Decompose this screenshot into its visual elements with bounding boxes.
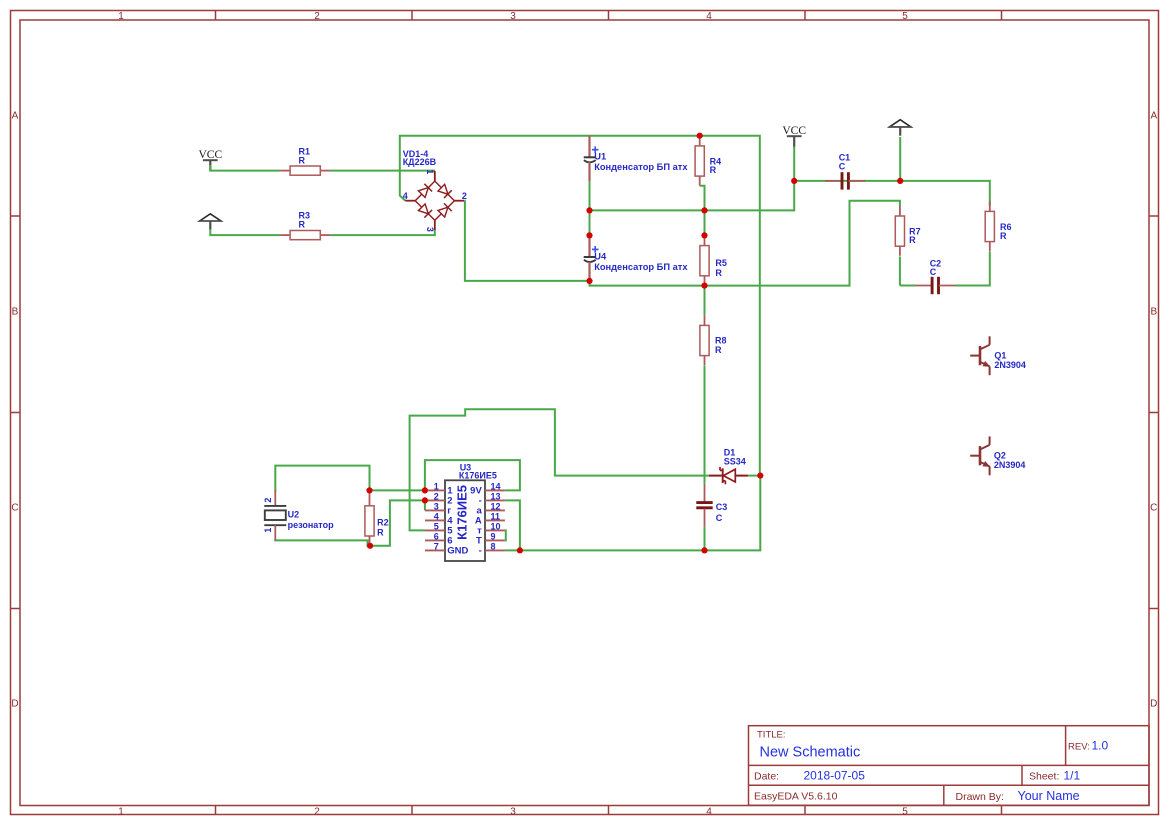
svg-text:Конденсатор БП атх: Конденсатор БП атх xyxy=(594,262,688,272)
svg-text:КД226В: КД226В xyxy=(403,157,437,167)
svg-text:4: 4 xyxy=(706,807,712,818)
capacitor C1 xyxy=(825,172,865,189)
svg-text:7: 7 xyxy=(434,542,439,552)
svg-text:B: B xyxy=(1150,307,1157,318)
svg-text:1: 1 xyxy=(118,11,124,22)
junction U1 minus node xyxy=(586,207,592,213)
wire gnd to R3 xyxy=(210,229,280,235)
svg-text:Sheet:: Sheet: xyxy=(1029,770,1059,782)
svg-text:3: 3 xyxy=(425,227,435,232)
svg-text:2: 2 xyxy=(462,191,467,201)
resistor R1 xyxy=(280,166,330,175)
svg-text:R: R xyxy=(715,345,722,355)
wire VCC right to C1 node xyxy=(793,147,795,181)
junction R2 top / pin1 net xyxy=(366,487,372,493)
svg-text:Date:: Date: xyxy=(754,770,779,782)
svg-text:10: 10 xyxy=(491,522,501,532)
junction R5 bottom xyxy=(701,283,707,289)
svg-text:4: 4 xyxy=(434,512,439,522)
svg-text:1/1: 1/1 xyxy=(1064,768,1081,782)
resistor R4 xyxy=(695,136,704,186)
svg-text:R: R xyxy=(710,165,717,175)
wire VCC to R1 xyxy=(210,165,280,171)
svg-text:R2: R2 xyxy=(377,517,389,527)
wire IC pin13 to pin8 xyxy=(505,500,520,550)
resistor R7 xyxy=(895,206,904,256)
svg-text:C: C xyxy=(930,267,937,277)
wire C1 node to gnd node to R6 xyxy=(794,181,990,206)
svg-text:2018-07-05: 2018-07-05 xyxy=(804,768,866,782)
svg-text:5: 5 xyxy=(902,807,908,818)
svg-text:R: R xyxy=(377,528,384,538)
svg-text:5: 5 xyxy=(434,522,439,532)
junction C3 bottom xyxy=(701,547,707,553)
svg-text:4: 4 xyxy=(403,191,408,201)
svg-text:R: R xyxy=(715,268,722,278)
svg-text:D: D xyxy=(11,699,18,710)
junction R4 top / top rail xyxy=(697,133,703,139)
junction U4 minus xyxy=(586,278,592,284)
junction U4 plus xyxy=(586,232,592,238)
VCC net flag (right) xyxy=(782,125,806,147)
junction IC pin8 / pin13 xyxy=(517,547,523,553)
svg-text:3: 3 xyxy=(510,807,516,818)
capacitor U4 (polarized) xyxy=(584,235,599,281)
junction VCC / C1 left xyxy=(791,178,797,184)
svg-text:A: A xyxy=(1150,111,1157,122)
wire U2 top loop to R2 top and pin1 xyxy=(275,466,369,492)
svg-text:C: C xyxy=(11,503,18,514)
wire D1 right to node xyxy=(748,475,760,477)
wire D1 node down to bottom rail xyxy=(505,476,760,551)
svg-text:Конденсатор БП атх: Конденсатор БП атх xyxy=(594,162,688,172)
svg-text:3: 3 xyxy=(510,11,516,22)
wire U2 bottom to R2 bottom xyxy=(275,539,370,546)
svg-text:C: C xyxy=(716,513,723,523)
wire C3 bottom to bottom rail xyxy=(704,527,706,551)
svg-text:C: C xyxy=(1150,503,1157,514)
wire C2 left to R7 bottom xyxy=(900,285,916,287)
wire R8 to C3 top xyxy=(704,365,706,483)
svg-text:4: 4 xyxy=(706,11,712,22)
capacitor C2 xyxy=(915,277,955,294)
wire node line U1- to VCC rail xyxy=(590,181,795,211)
svg-text:13: 13 xyxy=(491,492,501,502)
wire R3 to bridge pin3 xyxy=(330,229,435,235)
svg-text:EasyEDA V5.6.10: EasyEDA V5.6.10 xyxy=(754,791,838,803)
wire IC pin5 riser xyxy=(410,409,709,530)
svg-text:R: R xyxy=(909,235,916,245)
resistor R8 xyxy=(700,315,709,365)
svg-text:C: C xyxy=(839,162,846,172)
ground flag (left) xyxy=(200,214,221,230)
svg-text:6: 6 xyxy=(434,532,439,542)
junction R4 bottom / R5 top rail xyxy=(701,207,707,213)
svg-text:Q1: Q1 xyxy=(994,350,1006,360)
svg-text:2: 2 xyxy=(314,807,320,818)
wire U1- to U4+ xyxy=(589,210,591,235)
svg-text:К176ИЕ5: К176ИЕ5 xyxy=(459,470,497,480)
resistor R3 xyxy=(280,231,330,240)
wire IC pin14 loop to pin1 xyxy=(425,460,520,490)
wire bridge pin4 to top rail and down right xyxy=(400,136,760,476)
svg-text:D: D xyxy=(1150,699,1157,710)
wire bridge pin2 down to U4 bottom xyxy=(465,201,590,281)
resistor R2 xyxy=(369,490,371,495)
svg-text:К176ИЕ5: К176ИЕ5 xyxy=(455,485,470,540)
IC U3 K176IE5 xyxy=(425,480,505,561)
transistor Q1 2N3904 xyxy=(970,336,989,375)
VCC net flag (left) xyxy=(198,149,222,171)
svg-text:Your Name: Your Name xyxy=(1018,789,1080,803)
wire R7 bottom drop xyxy=(899,257,901,286)
svg-text:1: 1 xyxy=(263,528,273,533)
svg-text:14: 14 xyxy=(491,482,501,492)
svg-text:Q2: Q2 xyxy=(994,451,1006,461)
junction D1 cathode node xyxy=(757,473,763,479)
svg-text:-: - xyxy=(479,546,482,557)
wire R4 bottom jog xyxy=(700,186,705,211)
diode bridge VD1-4 xyxy=(405,171,464,230)
svg-text:9: 9 xyxy=(491,532,496,542)
svg-text:R: R xyxy=(299,220,306,230)
wire IC pin2 to pin3 xyxy=(424,500,426,510)
svg-text:3: 3 xyxy=(434,502,439,512)
capacitor U1 (polarized) xyxy=(584,136,599,182)
junction R5 top xyxy=(701,232,707,238)
svg-text:8: 8 xyxy=(491,542,496,552)
wire U4- jog to lower rail / R7 branch xyxy=(590,201,900,286)
wire R5 bottom node to R8 xyxy=(704,286,706,316)
junction R2 bottom xyxy=(367,543,373,549)
svg-text:1.0: 1.0 xyxy=(1092,739,1109,753)
wire R6 bottom to C2 right xyxy=(955,252,990,286)
svg-text:2: 2 xyxy=(263,498,273,503)
ground flag (right) xyxy=(890,120,911,136)
svg-text:GND: GND xyxy=(447,546,468,557)
svg-text:2: 2 xyxy=(434,492,439,502)
svg-text:SS34: SS34 xyxy=(724,457,746,467)
svg-text:R8: R8 xyxy=(715,336,727,346)
resistor R5 xyxy=(700,235,709,285)
junction IC pin2 xyxy=(422,497,428,503)
svg-text:REV:: REV: xyxy=(1068,742,1090,753)
svg-text:C3: C3 xyxy=(716,502,728,512)
svg-text:U1: U1 xyxy=(594,152,606,162)
svg-text:1: 1 xyxy=(118,807,124,818)
diode D1 SS34 xyxy=(709,467,748,484)
svg-text:TITLE:: TITLE: xyxy=(757,730,786,741)
svg-text:B: B xyxy=(12,307,19,318)
junction gnd / C1 right xyxy=(897,178,903,184)
svg-text:1: 1 xyxy=(434,482,439,492)
wire R2 bottom to IC pin2 xyxy=(370,500,425,545)
svg-text:резонатор: резонатор xyxy=(288,520,334,530)
junction IC pin1 xyxy=(422,487,428,493)
svg-text:U4: U4 xyxy=(594,251,607,261)
svg-text:Drawn By:: Drawn By: xyxy=(956,791,1004,803)
svg-text:R: R xyxy=(1000,231,1007,241)
transistor Q2 2N3904 xyxy=(970,436,989,475)
svg-text:1: 1 xyxy=(425,169,435,174)
svg-text:R: R xyxy=(299,156,306,166)
wire U1 bottom to node xyxy=(589,181,591,210)
svg-text:11: 11 xyxy=(491,512,501,522)
resistor R6 xyxy=(985,201,994,251)
svg-text:2N3904: 2N3904 xyxy=(994,460,1026,470)
wire R2 top to IC pin1 xyxy=(370,489,425,491)
capacitor C3 xyxy=(696,484,712,527)
svg-text:12: 12 xyxy=(491,502,501,512)
wire IC pin9-pin10 bracket xyxy=(504,530,507,540)
wire gnd right drop xyxy=(899,137,901,181)
svg-text:New Schematic: New Schematic xyxy=(760,744,861,760)
wire R4node to R5 top xyxy=(704,210,706,235)
title block xyxy=(749,726,1150,806)
svg-text:2: 2 xyxy=(314,11,320,22)
svg-text:5: 5 xyxy=(902,11,908,22)
svg-text:A: A xyxy=(12,111,19,122)
wire R1 to bridge pin1 xyxy=(330,170,435,172)
svg-text:2N3904: 2N3904 xyxy=(994,360,1026,370)
svg-text:U2: U2 xyxy=(288,509,300,519)
svg-text:R5: R5 xyxy=(715,258,727,268)
crystal resonator U2 xyxy=(264,491,286,541)
